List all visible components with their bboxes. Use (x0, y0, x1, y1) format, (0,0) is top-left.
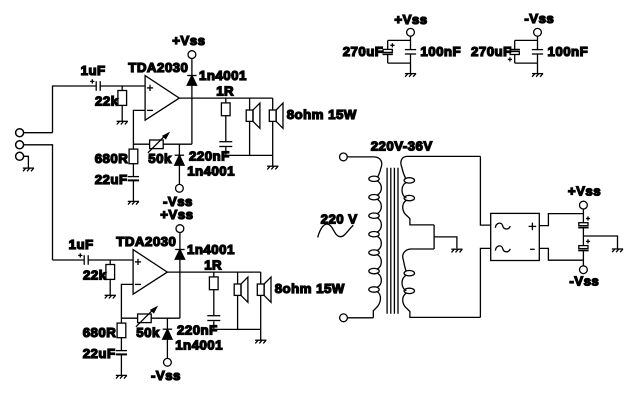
transformer TR1 core (387, 168, 398, 314)
resistor R22 680R feedback (117, 318, 126, 350)
wire secondary center tap (433, 225, 435, 249)
wire rectifier negative output (539, 248, 583, 260)
terminal +Vss rail (407, 28, 415, 36)
wire J3 to ground (24, 156, 29, 168)
wire feedback node to potentiometer channel 1 (133, 143, 149, 145)
ground below 22uF channel 2 (116, 375, 127, 378)
capacitor C10 reservoir negative (578, 239, 590, 265)
terminal +Vss channel 1 (188, 51, 196, 59)
svg-text:-Vss: -Vss (151, 368, 181, 383)
wire potentiometer to output node channel 1 (163, 143, 192, 145)
transformer TR1 primary winding (369, 157, 382, 318)
capacitor C11 1uF input (90, 79, 100, 91)
speaker LS1b 8ohm (269, 98, 283, 155)
resistor R13 1R zobel (221, 98, 230, 141)
wire top rail negative rail decoupling (515, 39, 538, 41)
ground input connector (23, 168, 34, 171)
terminal -Vss channel 1 (176, 184, 184, 192)
transformer TR1 secondary lower winding (402, 249, 480, 317)
connector primary top terminal (340, 153, 348, 161)
wire output vertical channel 1 (191, 85, 193, 144)
svg-text:8ohm 15W: 8ohm 15W (287, 107, 357, 122)
svg-text:22k: 22k (95, 94, 119, 109)
resistor R21 22k input bias (106, 260, 115, 295)
ground center tap (451, 249, 462, 252)
ground supply midpoint (612, 249, 623, 252)
wire cap to op-amp input channel 1 (100, 85, 145, 87)
svg-text:1R: 1R (204, 257, 222, 272)
svg-text:+Vss: +Vss (394, 12, 427, 27)
capacitor C21 1uF input (78, 253, 88, 264)
wire J1 to channel 1 (24, 132, 53, 134)
wire input coupling node channel 2 (53, 259, 85, 261)
op-amp U1 TDA2030 (145, 76, 179, 121)
speaker LS2a 8ohm (234, 272, 248, 329)
connector J1 input left (16, 129, 24, 137)
wire speaker return rail channel 1 (226, 154, 273, 156)
capacitor C7 270uF electrolytic (508, 40, 520, 63)
svg-text:680R: 680R (95, 151, 129, 166)
wire ground stem speakers channel 2 (260, 329, 262, 340)
svg-text:50k: 50k (148, 151, 172, 166)
wire output horizontal channel 2 (167, 271, 260, 273)
wire inverting input to feedback node channel 1 (133, 110, 145, 144)
svg-text:+Vss: +Vss (568, 183, 601, 198)
ground below speakers channel 2 (255, 340, 266, 343)
potentiometer RV1 50k (148, 133, 169, 153)
wire speaker return rail channel 2 (214, 328, 261, 330)
wire output vertical channel 2 (179, 259, 181, 318)
capacitor C8 100nF (532, 50, 543, 64)
svg-text:1n4001: 1n4001 (187, 163, 235, 178)
svg-text:+Vss: +Vss (172, 33, 205, 48)
wire inverting input to feedback node channel 2 (121, 284, 133, 318)
svg-text:8ohm 15W: 8ohm 15W (275, 281, 345, 296)
ground below 22k channel 1 (117, 121, 128, 124)
wire feedback node to potentiometer channel 2 (121, 317, 137, 319)
wire bottom rail positive rail decoupling (388, 62, 411, 64)
svg-text:220V-36V: 220V-36V (371, 139, 433, 154)
svg-text:220nF: 220nF (177, 323, 218, 338)
svg-text:22uF: 22uF (95, 172, 128, 187)
ground below 22k channel 2 (105, 295, 116, 298)
transformer TR1 secondary upper winding (401, 156, 481, 225)
resistor R12 680R feedback (129, 144, 138, 176)
wire primary top (347, 156, 374, 158)
wire midpoint to ground (583, 236, 617, 249)
svg-text:1n4001: 1n4001 (187, 242, 235, 257)
wire bottom rail negative rail decoupling (515, 62, 538, 64)
svg-text:50k: 50k (136, 325, 160, 340)
svg-text:270uF: 270uF (343, 44, 384, 59)
svg-text:1n4001: 1n4001 (199, 68, 247, 83)
connector primary bottom terminal (340, 314, 348, 322)
svg-text:1R: 1R (216, 83, 234, 98)
capacitor C23 220nF zobel (207, 316, 220, 330)
wire +Vss stem (582, 209, 584, 223)
svg-text:-Vss: -Vss (569, 274, 599, 289)
resistor R23 1R zobel (209, 272, 218, 315)
wire cap to op-amp input channel 2 (88, 259, 133, 261)
terminal -Vss rail (534, 28, 542, 36)
svg-text:TDA2030: TDA2030 (116, 234, 176, 249)
capacitor C9 reservoir positive (578, 216, 590, 245)
ground positive rail decoupling (405, 74, 416, 77)
wire output horizontal channel 1 (179, 97, 272, 99)
wire secondary top to rectifier (480, 156, 490, 225)
svg-text:1uF: 1uF (81, 63, 106, 78)
ground negative rail decoupling (532, 74, 543, 77)
terminal -Vss supply output (580, 266, 588, 274)
wire +Vss to diode channel 2 (179, 233, 181, 250)
diode D2 1n4001 lower (175, 144, 184, 184)
wire center tap to ground (434, 237, 457, 249)
capacitor C5 270uF electrolytic (383, 40, 395, 63)
potentiometer RV2 50k (136, 307, 157, 327)
wire primary bottom (347, 317, 373, 319)
connector J3 input ground (16, 152, 24, 160)
svg-text:100nF: 100nF (548, 44, 589, 59)
AC sine symbol mains (318, 224, 354, 237)
resistor R11 22k input bias (118, 86, 127, 121)
svg-text:220nF: 220nF (189, 149, 230, 164)
capacitor C6 100nF (405, 50, 416, 64)
bridge rectifier BR1 (491, 213, 540, 260)
svg-text:100nF: 100nF (420, 44, 461, 59)
diode D3 1n4001 upper (175, 250, 184, 260)
svg-text:22uF: 22uF (83, 346, 116, 361)
svg-text:-Vss: -Vss (524, 11, 554, 26)
capacitor C12 22uF feedback (128, 177, 139, 202)
wire ground stem negative rail decoupling (537, 63, 539, 73)
wire J2 to channel 2 (24, 145, 53, 260)
ground below speakers channel 1 (267, 166, 278, 169)
svg-text:1n4001: 1n4001 (175, 337, 223, 352)
svg-text:TDA2030: TDA2030 (128, 60, 188, 75)
wire top rail positive rail decoupling (388, 39, 411, 41)
wire secondary bottom to rectifier (480, 248, 490, 317)
speaker LS2b 8ohm (257, 272, 271, 329)
capacitor C22 22uF feedback (116, 351, 127, 376)
svg-text:270uF: 270uF (471, 44, 512, 59)
wire terminal stem positive rail decoupling (410, 36, 412, 49)
terminal +Vss channel 2 (176, 225, 184, 233)
diode D4 1n4001 lower (163, 318, 172, 358)
speaker LS1a 8ohm (246, 98, 260, 155)
diode D1 1n4001 upper (187, 76, 196, 86)
svg-text:1uF: 1uF (69, 237, 94, 252)
wire +Vss to diode channel 1 (191, 59, 193, 76)
svg-text:680R: 680R (83, 325, 117, 340)
wire input coupling node channel 1 (65, 85, 97, 87)
wire terminal stem negative rail decoupling (537, 36, 539, 49)
terminal +Vss supply output (580, 201, 588, 209)
wire potentiometer to output node channel 2 (151, 317, 180, 319)
wire ground stem positive rail decoupling (410, 63, 412, 73)
wire ground stem speakers channel 1 (272, 155, 274, 166)
svg-text:22k: 22k (83, 268, 107, 283)
connector J2 input right (16, 141, 24, 149)
ground below 22uF channel 1 (128, 201, 139, 204)
wire rectifier positive output (539, 214, 583, 226)
terminal -Vss channel 2 (164, 358, 172, 366)
capacitor C13 220nF zobel (219, 142, 232, 156)
wire riser to channel 1 input (53, 86, 65, 133)
op-amp U2 TDA2030 (133, 250, 167, 295)
svg-text:+Vss: +Vss (160, 207, 193, 222)
